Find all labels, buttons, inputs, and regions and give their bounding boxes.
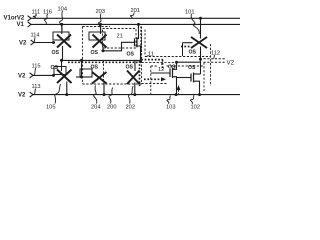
wire 204 gate feed [81, 60, 83, 77]
lead 101 [191, 14, 199, 34]
lead 204b [94, 86, 97, 104]
transistor 103 gate wire [151, 72, 170, 74]
svg-text:OS: OS [168, 65, 176, 71]
box 11 right [210, 44, 212, 86]
svg-text:201: 201 [131, 8, 141, 14]
transistor 104 source [62, 46, 64, 60]
transistor 104 drain [61, 24, 63, 34]
transistor 201 source [137, 46, 141, 60]
svg-text:V1orV2: V1orV2 [4, 16, 25, 22]
transistor 203 drain [100, 24, 102, 34]
dashed segment below arrow [142, 83, 167, 85]
box 200 right [141, 27, 143, 85]
arrow right [161, 77, 166, 81]
box 200 left [82, 27, 84, 85]
wire 203 source to 201 gate [103, 42, 134, 51]
arrow up dashed [177, 85, 181, 90]
svg-text:101: 101 [185, 9, 195, 15]
svg-text:V2: V2 [18, 73, 26, 79]
svg-text:102: 102 [191, 104, 201, 110]
box 11 bottom [145, 56, 211, 58]
lead 115 [35, 68, 36, 75]
transistor 105 drain [61, 60, 63, 71]
lead 116 [44, 14, 47, 24]
wire 113 bottom V2 rail [33, 94, 240, 96]
svg-text:V2: V2 [19, 41, 27, 47]
box 21 [103, 29, 137, 49]
lead 102b [190, 95, 194, 104]
svg-text:OS: OS [189, 49, 197, 55]
box 200 top [83, 26, 111, 28]
wire 204 gate [76, 76, 92, 78]
svg-text:V1: V1 [17, 22, 25, 28]
lead 113 [35, 89, 36, 95]
box 12 left [150, 66, 152, 95]
transistor 103 channel [172, 68, 174, 78]
svg-text:11: 11 [148, 51, 154, 57]
lead 11 [146, 55, 149, 58]
svg-text:112: 112 [211, 50, 220, 56]
transistor 102 gate wire [177, 77, 191, 79]
dotted path vertical b [139, 61, 141, 86]
lead 202b [128, 86, 133, 104]
box 12 top a [151, 65, 158, 67]
transistor 101 drain [200, 18, 202, 38]
wire 112 output dashed b [204, 61, 226, 63]
lead 114 [33, 37, 36, 42]
wire 101 gate feed [182, 43, 184, 56]
dotted path vertical a [140, 27, 142, 63]
svg-text:V2: V2 [18, 93, 26, 99]
wire node right [177, 61, 201, 63]
transistor 202 X [127, 71, 140, 85]
node 105 gate [52, 74, 55, 77]
lead 200b [109, 88, 113, 104]
transistor 203 gate box [89, 32, 105, 40]
wire 101 source [200, 47, 202, 75]
node 204 gate [80, 76, 83, 79]
dotted path horizontal arrow [144, 78, 162, 80]
dotted path vertical c [162, 60, 164, 70]
svg-text:202: 202 [126, 104, 136, 110]
transistor 201 drain [137, 24, 139, 38]
box 11 left [144, 30, 146, 57]
wire 112 output dashed a [204, 58, 226, 60]
svg-text:115: 115 [32, 64, 41, 70]
lead 105 [55, 84, 61, 104]
lead 111 [33, 14, 36, 18]
transistor 104 X [57, 35, 71, 48]
transistor 204 source [103, 82, 105, 95]
wire 116 V1 rail [31, 23, 240, 25]
transistor 102 drain [194, 73, 201, 75]
box 200 bottom [83, 83, 142, 85]
svg-text:V2: V2 [227, 59, 235, 66]
lead 112 [213, 55, 216, 59]
transistor 102 channel [193, 73, 195, 83]
box 12 top b [167, 65, 205, 67]
svg-text:105: 105 [46, 104, 56, 110]
transistor 204 gate box [80, 69, 92, 77]
transistor 102 gate bar [190, 74, 192, 82]
lead 104 [60, 11, 63, 31]
transistor 103 drain [173, 62, 177, 69]
box 12 right [203, 62, 205, 91]
svg-text:113: 113 [32, 84, 41, 90]
svg-text:OS: OS [91, 65, 99, 71]
transistor 202 source [134, 83, 136, 95]
transistor 102 source [194, 81, 200, 94]
node 104 gate [52, 41, 55, 44]
transistor 203 X [93, 35, 107, 48]
transistor 105 source [66, 82, 68, 95]
wire node dashed left [142, 61, 177, 63]
svg-text:200: 200 [107, 104, 117, 110]
svg-text:OS: OS [127, 52, 135, 58]
svg-text:OS: OS [126, 64, 134, 70]
svg-text:203: 203 [96, 9, 106, 15]
svg-text:OS: OS [91, 50, 99, 56]
transistor 103 source [173, 77, 177, 95]
wire 115 V2 row [33, 74, 54, 76]
lead 203 [98, 14, 101, 32]
transistor 101 gate wire [183, 42, 193, 44]
svg-text:21: 21 [117, 33, 123, 39]
dotted path horizontal right [141, 59, 163, 61]
wire 111 V1orV2 rail [31, 17, 240, 19]
lead 12 [162, 62, 163, 65]
svg-text:12: 12 [158, 67, 164, 73]
transistor 101 X [191, 37, 207, 48]
dotted path gate 101 [181, 46, 190, 48]
transistor 104 gate box [53, 32, 69, 40]
lead 201 [130, 13, 134, 19]
svg-text:103: 103 [166, 104, 176, 110]
svg-text:OS: OS [52, 50, 60, 56]
transistor 201 gate bar [134, 38, 136, 46]
transistor 204 X [92, 72, 107, 84]
transistor 202 drain [134, 60, 136, 71]
transistor 105 gate box [54, 67, 66, 75]
transistor 201 channel [136, 37, 138, 47]
transistor 103 gate bar [169, 69, 171, 77]
transistor 105 X [57, 70, 72, 84]
node a [60, 59, 63, 62]
wire 114 V2 row [34, 42, 54, 44]
lead 103b [167, 96, 171, 105]
node b [80, 59, 83, 62]
dotted path horizontal left [68, 61, 141, 63]
svg-text:204: 204 [91, 104, 101, 110]
box 200 inner dashed b [103, 60, 105, 80]
node output [199, 58, 202, 61]
wire node row [60, 59, 141, 61]
